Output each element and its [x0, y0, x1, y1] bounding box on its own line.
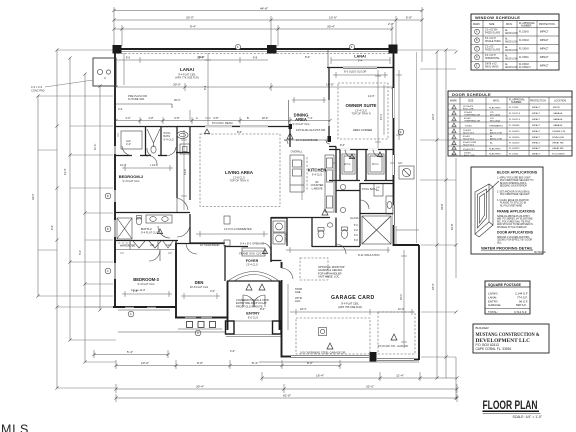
svg-text:8'-4": 8'-4"	[252, 361, 258, 365]
label living	[225, 170, 254, 183]
label kitchen	[308, 168, 327, 177]
svg-text:3,712 S.F.: 3,712 S.F.	[514, 310, 527, 314]
svg-text:BEDROOM-2: BEDROOM-2	[119, 174, 144, 179]
pool bath sink oval	[177, 131, 188, 138]
svg-text:BATH-2: BATH-2	[141, 227, 152, 231]
svg-text:DOOR APPLICATIONS: DOOR APPLICATIONS	[497, 231, 534, 235]
label lanai right	[354, 55, 366, 63]
entry left wall	[227, 281, 229, 330]
svg-text:FRAME OVH. CLG. 8': FRAME OVH. CLG. 8'	[239, 252, 265, 256]
lanai right interior vertical dim	[375, 70, 381, 148]
owner suite left wall	[328, 68, 330, 142]
bedroom2 interior dims	[122, 165, 173, 171]
svg-text:IMPACT: IMPACT	[532, 112, 541, 115]
svg-text:PROTECTION: PROTECTION	[539, 23, 555, 26]
svg-text:SLDG GLS: SLDG GLS	[463, 139, 474, 141]
svg-text:WARDROBE: WARDROBE	[120, 244, 135, 248]
garage bottom wall left stub	[281, 356, 291, 358]
bath2 toilet	[136, 216, 142, 225]
small dim ticks row under bedroom wall	[118, 110, 190, 137]
svg-text:SINGLE HUNG: SINGLE HUNG	[485, 41, 501, 43]
svg-text:CEDING FOR EFFECT BY DOOR: CEDING FOR EFFECT BY DOOR	[497, 240, 532, 242]
AC pad outside	[399, 166, 414, 179]
svg-text:4'-0 x 4'-0: 4'-0 x 4'-0	[31, 85, 43, 89]
svg-text:62'-8": 62'-8"	[450, 223, 454, 230]
svg-text:BUILDER:: BUILDER:	[476, 326, 490, 330]
dim labels row2	[186, 16, 412, 20]
svg-text:14'-0": 14'-0"	[368, 94, 375, 98]
svg-text:9'-4 FLAT CEIL: 9'-4 FLAT CEIL	[341, 302, 359, 306]
svg-text:BEDROOM-3: BEDROOM-3	[133, 277, 159, 282]
kitchen pantry wall	[329, 147, 336, 214]
foyer east wall	[270, 247, 272, 263]
svg-text:KITCHEN: KITCHEN	[308, 168, 327, 173]
svg-text:IMPACT: IMPACT	[540, 31, 549, 34]
svg-text:15'-4: 15'-4	[379, 114, 383, 120]
living north wall slider gaps	[205, 126, 268, 128]
window mark circle on left wall 2	[105, 226, 111, 232]
svg-text:BEDDING ON EXTERIOR: BEDDING ON EXTERIOR	[500, 186, 527, 188]
label den	[190, 280, 209, 289]
svg-text:30'-2": 30'-2"	[174, 98, 181, 102]
label entry	[246, 311, 260, 320]
svg-text:L ABOVE: L ABOVE	[312, 186, 323, 190]
svg-text:(APX 796 USE FLR): (APX 796 USE FLR)	[338, 305, 362, 309]
svg-text:5'8/76 x 6'2: 5'8/76 x 6'2	[485, 64, 497, 66]
svg-text:IMPACT: IMPACT	[532, 118, 541, 121]
bath3 toilet	[151, 146, 156, 153]
svg-text:62'-8": 62'-8"	[283, 394, 291, 398]
svg-text:12'-8 CLG PERIMETER: 12'-8 CLG PERIMETER	[224, 227, 252, 231]
svg-text:R-11 INSULATION: R-11 INSULATION	[358, 253, 380, 257]
pool bath walls	[360, 184, 393, 247]
pool bath left room	[162, 153, 190, 156]
dimension line top 3	[114, 25, 392, 46]
svg-text:4'-0: 4'-0	[118, 107, 123, 111]
bedroom3 closet dim ticks	[120, 252, 172, 254]
garage top-right step dims	[396, 226, 419, 245]
svg-text:21'-4: 21'-4	[197, 56, 203, 60]
lanai band extra dims	[116, 57, 268, 63]
svg-text:2'2 x 6'2: 2'2 x 6'2	[485, 47, 494, 49]
garage step top wall	[394, 244, 420, 246]
svg-text:PROTECTION: PROTECTION	[530, 100, 546, 103]
label dining	[292, 113, 309, 127]
pool bath toilet	[342, 227, 348, 238]
svg-text:9'-0": 9'-0"	[197, 361, 203, 365]
garage opt note	[318, 265, 345, 279]
svg-text:ANOD LOW: ANOD LOW	[505, 58, 518, 61]
svg-text:C: C	[130, 312, 132, 316]
svg-text:LAUNDRY: LAUNDRY	[285, 232, 288, 243]
svg-text:FIXED GLASS: FIXED GLASS	[485, 49, 501, 52]
svg-text:5'-0": 5'-0"	[78, 250, 82, 255]
svg-text:9'-4: 9'-4	[358, 59, 363, 63]
svg-text:13'-8: 13'-8	[183, 169, 187, 175]
svg-text:B: B	[247, 116, 249, 120]
svg-text:FULL LITE: FULL LITE	[464, 155, 475, 157]
svg-text:ZERO CORNER: ZERO CORNER	[353, 128, 372, 132]
svg-text:FRAME APPLICATIONS: FRAME APPLICATIONS	[497, 210, 536, 214]
wic1 shelf box	[342, 154, 355, 174]
svg-text:BLOCK APPLICATIONS: BLOCK APPLICATIONS	[497, 171, 538, 175]
left tiny dim labels	[31, 144, 97, 255]
svg-text:IMPACT: IMPACT	[540, 65, 549, 68]
svg-text:FL 16521.8: FL 16521.8	[509, 113, 521, 115]
svg-text:LIN: LIN	[150, 243, 154, 247]
bath3 door arc	[147, 148, 151, 156]
svg-text:16'-4": 16'-4"	[316, 374, 324, 378]
lanai dim label	[173, 83, 334, 87]
svg-text:NUMBER: NUMBER	[511, 101, 522, 104]
svg-text:B: B	[107, 194, 109, 198]
svg-text:8'0 OVHD. STL. GAR. DR.: 8'0 OVHD. STL. GAR. DR.	[378, 344, 409, 348]
dining-kitchen west wall	[289, 127, 291, 148]
right tiny dim labels	[431, 113, 454, 290]
lanai edge line at left	[93, 85, 116, 87]
svg-text:MLS: MLS	[1, 423, 29, 432]
hall tiny dims column	[354, 225, 358, 242]
kitchen counter note	[311, 180, 324, 190]
svg-text:FL 15061: FL 15061	[519, 57, 529, 59]
kitchen dims	[301, 160, 303, 200]
den window gaps	[185, 317, 212, 319]
svg-text:GARAGE CARD: GARAGE CARD	[331, 295, 375, 301]
svg-text:SQUARE FOOTAGE: SQUARE FOOTAGE	[488, 283, 522, 287]
bath2 fixtures: shower X	[117, 218, 132, 239]
svg-text:MATL: MATL	[493, 100, 500, 103]
central hall south wall	[336, 246, 360, 248]
suite wall block	[328, 136, 332, 142]
svg-text:8'-0": 8'-0"	[237, 130, 242, 134]
column top-left	[113, 45, 122, 54]
lanai right divider	[327, 50, 329, 67]
svg-text:33'-0": 33'-0"	[186, 16, 194, 20]
more scattered tiny labels	[183, 85, 403, 300]
garage interior dims	[290, 309, 414, 315]
suite top slider gap	[343, 67, 377, 69]
central band extra dims	[196, 231, 268, 237]
svg-text:A: A	[196, 116, 198, 120]
window mark den	[195, 330, 201, 336]
svg-text:IMPACT: IMPACT	[532, 130, 541, 133]
garage clg note	[338, 302, 362, 310]
closet bifold doors	[133, 241, 173, 248]
svg-text:TOP OF TRAY 8: TOP OF TRAY 8	[229, 179, 249, 183]
svg-text:ANOD LOW: ANOD LOW	[490, 132, 503, 135]
svg-text:CLO: CLO	[166, 243, 171, 247]
bottom dimension lines	[94, 350, 457, 402]
garage left wall	[281, 262, 283, 358]
right exterior wall (owner suite)	[393, 49, 395, 246]
svg-text:9'-4 x 8'-0 OPENING: 9'-4 x 8'-0 OPENING	[240, 242, 264, 246]
suite left window gap thin	[328, 100, 330, 126]
svg-text:24'-0": 24'-0"	[431, 113, 435, 120]
svg-text:16'-0": 16'-0"	[326, 83, 334, 87]
foyer arch arc	[228, 272, 279, 282]
svg-text:9'-4 CLG: 9'-4 CLG	[164, 137, 174, 141]
svg-text:IMPACT: IMPACT	[532, 136, 541, 139]
door arc pool bath	[373, 150, 381, 158]
svg-text:NO SCALE: NO SCALE	[534, 251, 546, 254]
entry arch triangles	[246, 284, 265, 290]
left wall window openings	[114, 146, 116, 279]
svg-text:2'8x8'0: 2'8x8'0	[465, 126, 473, 128]
svg-text:8'-0": 8'-0"	[307, 361, 313, 365]
dotted beam over pool bath passage	[162, 126, 177, 128]
svg-text:PLASTPRO: PLASTPRO	[489, 147, 501, 150]
svg-text:A: A	[107, 269, 109, 273]
svg-text:44'-8": 44'-8"	[260, 6, 268, 10]
svg-text:PLASTPRO: PLASTPRO	[489, 153, 501, 156]
svg-text:AGE: AGE	[295, 290, 301, 294]
window mark bedroom3 bottom	[128, 311, 134, 317]
svg-text:AREA: AREA	[295, 117, 307, 122]
right wall slider openings	[393, 88, 395, 225]
bedroom wing north wall	[116, 126, 192, 128]
door arc den	[186, 244, 197, 255]
svg-text:WINDOW SCHEDULE: WINDOW SCHEDULE	[475, 15, 520, 20]
bedroom3 window gaps	[125, 306, 156, 308]
svg-text:12'-4": 12'-4"	[120, 163, 127, 167]
svg-text:OWNER SUITE: OWNER SUITE	[346, 103, 377, 108]
alcove inner lines	[121, 131, 142, 149]
svg-text:MATL: MATL	[506, 23, 513, 26]
svg-text:8'-0": 8'-0"	[260, 307, 265, 311]
living tray dashed rect	[200, 134, 280, 207]
svg-text:13'-4": 13'-4"	[63, 168, 67, 175]
den right wall	[224, 245, 226, 281]
hall door arc bedroom2	[177, 198, 188, 212]
kitchen arch line	[284, 140, 330, 144]
svg-text:2'-8": 2'-8"	[388, 22, 394, 26]
svg-text:8'-0: 8'-0	[126, 56, 131, 60]
garage small note left	[295, 287, 302, 303]
svg-text:6'-8: 6'-8	[253, 56, 258, 60]
svg-text:E: E	[400, 130, 402, 134]
svg-text:34'-0": 34'-0"	[31, 193, 35, 200]
misc tiny labels scattered	[118, 94, 375, 247]
pool bath door arc	[167, 147, 176, 156]
svg-text:OVERHEAD DR: OVERHEAD DR	[464, 114, 480, 117]
svg-text:34'-8": 34'-8"	[440, 203, 444, 210]
svg-text:SNGL HUNG: SNGL HUNG	[485, 67, 499, 69]
zero corner note	[296, 128, 372, 132]
svg-text:BLOCK OPENING AND A: BLOCK OPENING AND A	[500, 182, 527, 185]
dining south column	[289, 124, 293, 129]
label bedroom2	[119, 174, 144, 183]
bedroom2 east wall	[176, 127, 178, 199]
living south wall	[190, 242, 225, 244]
svg-text:PLASTPRO: PLASTPRO	[489, 106, 501, 109]
svg-text:FL 304316: FL 304316	[509, 137, 520, 139]
pool bath shower X	[362, 216, 391, 244]
svg-text:9'-4 FLAT CLG: 9'-4 FLAT CLG	[122, 179, 139, 183]
svg-text:ANOD LOW: ANOD LOW	[505, 66, 518, 69]
dimension line top 1	[114, 7, 422, 62]
kitchen upper dashed cabinets	[306, 157, 308, 190]
svg-text:ANOD LOW: ANOD LOW	[505, 32, 518, 35]
window mark circle A on left wall	[105, 193, 111, 199]
dining dims	[292, 97, 326, 103]
den interior dims	[181, 293, 220, 299]
svg-text:IMPACT: IMPACT	[532, 142, 541, 145]
svg-text:16'-0: 16'-0	[399, 294, 403, 300]
svg-text:3'0x8'0 PKT: 3'0x8'0 PKT	[463, 149, 475, 151]
foyer col dots	[224, 216, 230, 246]
den left wall	[175, 243, 177, 317]
bath2 door arc	[158, 226, 170, 238]
label owner suite	[346, 103, 377, 116]
svg-text:LANAI: LANAI	[354, 55, 366, 59]
pool bath vanity	[386, 196, 393, 214]
svg-text:OWNER STE: OWNER STE	[552, 131, 566, 133]
lanai interior vertical dim	[205, 53, 211, 125]
lanai vertical dim left	[123, 53, 125, 85]
bedroom2 arc near alcove	[148, 155, 157, 164]
svg-text:POOL BATH: POOL BATH	[362, 187, 377, 191]
svg-text:9'-4 FLAT CLG: 9'-4 FLAT CLG	[137, 282, 154, 286]
garage opt rooftop dashed box	[300, 258, 328, 280]
svg-text:4'-0": 4'-0"	[126, 142, 131, 146]
door arc laundry	[262, 243, 271, 252]
extra tiny dim labels scattered	[120, 55, 404, 353]
svg-text:(APX 774 USE FLR): (APX 774 USE FLR)	[175, 76, 199, 80]
spa step line	[116, 104, 172, 108]
closet band bedroom3	[116, 241, 176, 250]
svg-text:GREAT RM: GREAT RM	[552, 142, 564, 145]
column top-right	[389, 45, 398, 54]
svg-text:ENTRY: ENTRY	[553, 107, 561, 109]
svg-text:LIVING AREA: LIVING AREA	[225, 170, 254, 175]
dim slash ticks	[92, 9, 458, 400]
svg-text:FL 309463: FL 309463	[509, 125, 520, 127]
svg-text:THERMATRU: THERMATRU	[489, 124, 503, 127]
wic divider walls	[340, 150, 386, 181]
owner suite interior dims	[333, 72, 388, 78]
closet shelf dash	[118, 242, 131, 244]
svg-text:8'-0 SLDG GLS DR: 8'-0 SLDG GLS DR	[344, 70, 367, 74]
svg-text:SIZE: SIZE	[468, 100, 474, 103]
window mark circle on left wall 3	[105, 268, 111, 274]
powder toilet	[318, 223, 333, 238]
svg-text:FL 304313: FL 304313	[509, 148, 520, 150]
suite wic dim row	[333, 162, 394, 164]
svg-text:UNIT WHSE. LOC.: UNIT WHSE. LOC.	[318, 275, 340, 279]
entry vertical dim	[287, 284, 289, 330]
svg-text:NL POLYURETHANE: NL POLYURETHANE	[500, 204, 523, 207]
svg-text:SIMILAR A VULKEM AND PRO-: SIMILAR A VULKEM AND PRO-	[497, 236, 530, 239]
entry porch columns	[226, 321, 235, 334]
svg-text:ANOD LOW: ANOD LOW	[490, 138, 503, 141]
svg-text:DINING RM: DINING RM	[552, 137, 564, 139]
walkway line left of entry	[118, 331, 226, 333]
lanai screen dotted	[117, 53, 390, 55]
svg-text:LIN: LIN	[376, 187, 380, 189]
svg-text:TOP OF TRAY 8: TOP OF TRAY 8	[351, 112, 371, 116]
kitchen island counter	[290, 155, 304, 192]
svg-text:FULL LITE: FULL LITE	[463, 109, 474, 111]
den porch edge	[178, 328, 222, 330]
svg-text:SCALE: 1/4" = 1'-0": SCALE: 1/4" = 1'-0"	[512, 415, 542, 419]
garage door triangle marks	[327, 334, 397, 349]
bath2 south wall	[116, 240, 178, 242]
alcove room walls	[116, 127, 148, 157]
svg-text:9'-8": 9'-8"	[213, 116, 218, 120]
svg-text:16'0 SLDG GLS PKT. DR.: 16'0 SLDG GLS PKT. DR.	[296, 128, 326, 132]
wic2 shelf box	[368, 154, 384, 174]
svg-text:3'-0": 3'-0"	[210, 289, 215, 293]
svg-text:IMPACT: IMPACT	[540, 56, 549, 59]
suite-wic vertical dim	[396, 70, 402, 140]
garage apron line	[259, 361, 419, 363]
svg-text:INS 24GA: INS 24GA	[490, 114, 500, 117]
foyer niche walls	[242, 248, 265, 256]
svg-text:10'-0 SOAR BAND: 10'-0 SOAR BAND	[296, 138, 318, 142]
svg-text:FLOOR PLAN: FLOOR PLAN	[483, 398, 538, 412]
svg-text:ANOD LOW: ANOD LOW	[505, 49, 518, 52]
bedroom3 east wall	[175, 241, 177, 308]
hall washer dryer circles	[340, 184, 345, 212]
svg-text:FL 17663: FL 17663	[509, 107, 519, 109]
kitchen bottom wall	[271, 217, 330, 219]
svg-text:IMPACT: IMPACT	[540, 48, 549, 51]
svg-text:GARAGE: GARAGE	[553, 124, 563, 127]
svg-text:RIC, POLYURES NAIL TIE FINS: RIC, POLYURES NAIL TIE FINS	[497, 220, 531, 223]
svg-text:CONC PAD: CONC PAD	[31, 88, 45, 92]
svg-text:SAME AS ABOVE PLUS APPLY: SAME AS ABOVE PLUS APPLY	[497, 215, 530, 218]
garage vertical dim	[401, 250, 407, 348]
svg-text:POOL BATH: POOL BATH	[552, 152, 565, 155]
bath3 shower V	[147, 129, 160, 147]
wic bottom wall	[329, 180, 393, 182]
svg-text:MIN. PG SERIES 1/4" ELASTOME: MIN. PG SERIES 1/4" ELASTOME	[497, 218, 533, 221]
svg-text:FL 15043: FL 15043	[519, 40, 529, 42]
owner suite top wall	[327, 67, 393, 69]
svg-text:18'-4": 18'-4"	[431, 283, 435, 290]
svg-text:2. SET ANCHOR IN VULKEM &: 2. SET ANCHOR IN VULKEM &	[497, 191, 530, 194]
lanai right dim line	[331, 57, 390, 64]
svg-text:IMPACT: IMPACT	[532, 124, 541, 127]
svg-text:30'-0": 30'-0"	[173, 83, 181, 87]
entry double door arc 2	[253, 295, 265, 307]
svg-text:9'-4 CLG: 9'-4 CLG	[312, 173, 322, 177]
svg-text:GREAT RM: GREAT RM	[552, 147, 564, 150]
svg-text:2'-8": 2'-8"	[133, 289, 138, 293]
svg-text:8'-4": 8'-4"	[340, 143, 345, 147]
svg-text:16'0 OVERHEAD STEEL GARAGE DR.: 16'0 OVERHEAD STEEL GARAGE DR.	[300, 350, 346, 354]
svg-text:FL 304313: FL 304313	[509, 143, 520, 145]
svg-text:WATER PROOFING DETAIL: WATER PROOFING DETAIL	[481, 246, 533, 251]
svg-text:x 13'-8: x 13'-8	[150, 163, 158, 167]
cart door opening	[377, 359, 414, 361]
svg-text:FL 15062.3: FL 15062.3	[519, 67, 531, 69]
linen cabinet	[374, 184, 383, 197]
svg-text:10'-8 FLAT CLG: 10'-8 FLAT CLG	[190, 285, 209, 289]
den bottom wall	[175, 317, 228, 319]
svg-text:FL 15043: FL 15043	[519, 64, 529, 66]
foyer top arc wall	[225, 246, 248, 248]
right vertical dim lines	[437, 50, 456, 398]
svg-text:9'-4 FLAT CLG: 9'-4 FLAT CLG	[292, 122, 309, 126]
alc door arc	[122, 146, 132, 156]
svg-text:9'-4 FLAT CLG: 9'-4 FLAT CLG	[141, 230, 158, 234]
right dim ticks	[396, 50, 456, 357]
left vertical dim lines	[38, 50, 100, 388]
bedroom3 bottom wall	[113, 306, 176, 308]
top wall inner line	[117, 51, 392, 53]
svg-text:OVERHEAD DR: OVERHEAD DR	[464, 120, 480, 123]
